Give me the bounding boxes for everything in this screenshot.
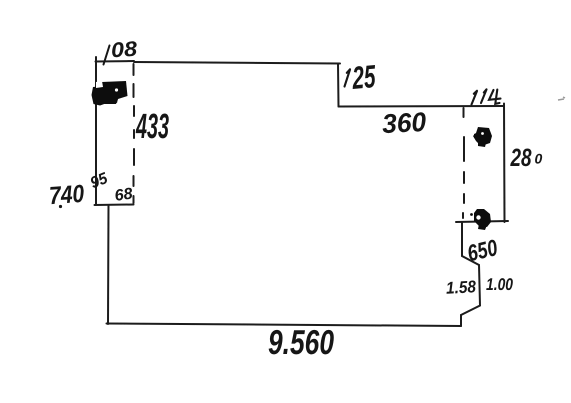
svg-text:28: 28 xyxy=(510,145,533,173)
wire bottom wall 9.560 xyxy=(107,324,462,327)
wire wall 3.60 xyxy=(339,105,505,108)
wire top wall xyxy=(134,62,340,64)
wire right-rect bottom edge xyxy=(456,221,508,222)
svg-text:9.560: 9.560 xyxy=(268,323,334,361)
svg-text:08: 08 xyxy=(110,38,138,63)
svg-text:1.58: 1.58 xyxy=(445,277,476,298)
wire left-rect right edge dashed xyxy=(133,64,136,203)
label 108 xyxy=(104,46,110,65)
svg-text:95: 95 xyxy=(88,170,111,193)
blob in right rect bottom xyxy=(470,209,491,230)
svg-text:0: 0 xyxy=(535,151,543,167)
svg-text:1.00: 1.00 xyxy=(486,275,513,294)
svg-text:360: 360 xyxy=(381,107,427,139)
wire left-rect top edge xyxy=(96,60,135,63)
svg-text:25: 25 xyxy=(351,59,378,97)
wire left-rect bottom edge xyxy=(95,204,134,207)
svg-text:650: 650 xyxy=(465,234,500,266)
wire right side jog down xyxy=(461,222,480,326)
faint stray mark right margin xyxy=(558,97,565,100)
svg-text:740: 740 xyxy=(48,180,85,210)
svg-text:68: 68 xyxy=(114,185,134,204)
wire left-rect left edge xyxy=(95,57,97,205)
wire left wall 7.40 xyxy=(107,205,110,324)
wire right-rect left edge dashed xyxy=(463,108,464,218)
svg-text:433: 433 xyxy=(135,107,169,146)
blob in right rect top xyxy=(473,127,492,147)
label 1.25 xyxy=(345,69,351,86)
blob in left rect xyxy=(92,81,128,106)
wire step down at 1.25 xyxy=(337,64,340,107)
wire right-rect right edge xyxy=(503,104,506,223)
label 1.14 xyxy=(472,89,501,104)
